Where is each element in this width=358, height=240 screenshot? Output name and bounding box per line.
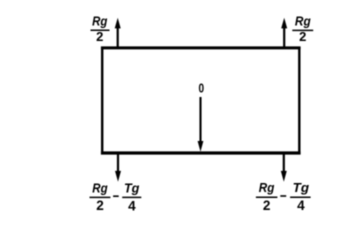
svg-text:2: 2 [96, 29, 103, 44]
label Rg/2 top-left [91, 14, 110, 44]
svg-text:Rg: Rg [259, 180, 275, 195]
svg-text:4: 4 [128, 198, 136, 213]
label Rg/2 - Tg/4 bottom-right [256, 180, 311, 213]
force arrow up top-right [281, 18, 287, 48]
label Rg/2 top-right [292, 14, 313, 45]
svg-text:Tg: Tg [124, 181, 140, 196]
svg-text:Rg: Rg [92, 14, 107, 29]
svg-text:2: 2 [96, 198, 104, 213]
force arrow down bottom-left [115, 153, 121, 181]
svg-text:Rg: Rg [92, 181, 107, 196]
force arrow up top-left [115, 18, 121, 48]
svg-text:2: 2 [263, 198, 271, 213]
svg-text:2: 2 [299, 29, 306, 44]
svg-text:4: 4 [297, 198, 305, 213]
beam outline bottom edge [101, 151, 301, 154]
svg-text:Tg: Tg [293, 180, 309, 195]
label Rg/2 - Tg/4 bottom-left [90, 181, 142, 214]
svg-text:Rg: Rg [295, 14, 311, 29]
beam outline right edge [298, 47, 300, 155]
svg-text:0: 0 [199, 81, 205, 96]
center load arrow down [198, 97, 204, 152]
force arrow down bottom-right [281, 153, 287, 181]
beam outline top edge [101, 46, 301, 49]
beam outline left edge [101, 47, 103, 155]
